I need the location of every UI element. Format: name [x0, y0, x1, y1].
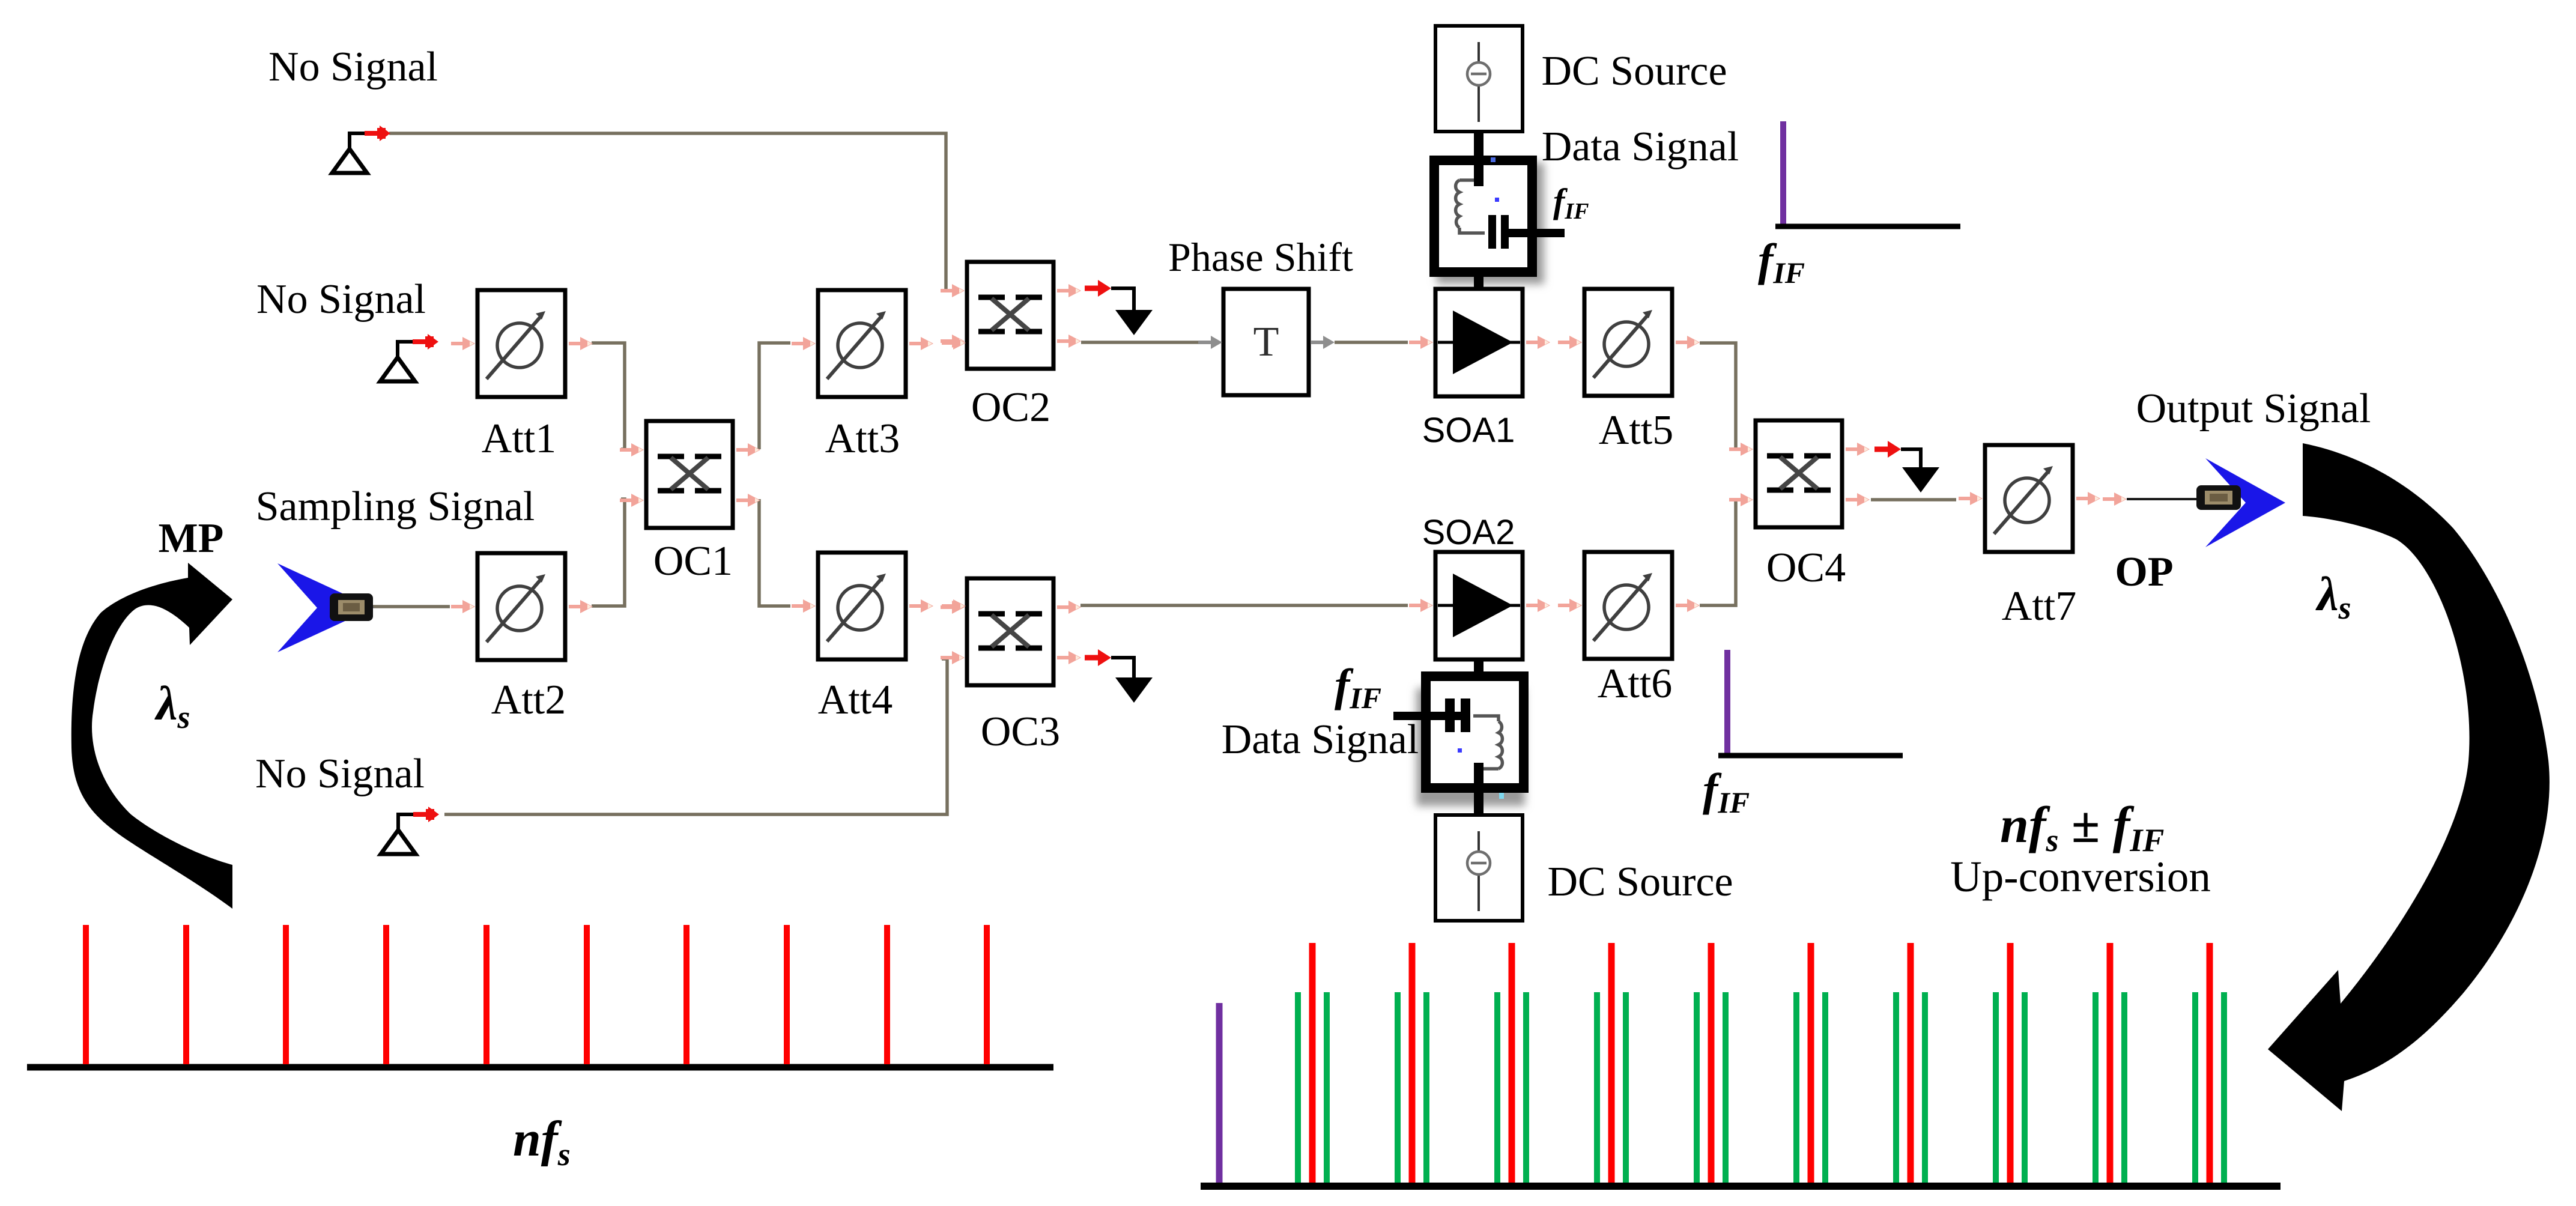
svg-text:DC Source: DC Source [1547, 859, 1733, 905]
svg-text:Output Signal: Output Signal [2136, 386, 2371, 432]
svg-text:SOA1: SOA1 [1422, 411, 1515, 450]
svg-text:OC3: OC3 [981, 709, 1060, 755]
svg-text:No Signal: No Signal [256, 276, 426, 323]
svg-text:OC1: OC1 [653, 538, 733, 584]
svg-text:Att7: Att7 [2002, 583, 2076, 629]
svg-text:MP: MP [159, 515, 224, 562]
svg-text:Phase Shift: Phase Shift [1168, 234, 1353, 280]
svg-text:Data Signal: Data Signal [1542, 124, 1739, 170]
svg-text:No Signal: No Signal [268, 44, 438, 90]
svg-text:OP: OP [2115, 549, 2173, 595]
svg-text:Att6: Att6 [1598, 661, 1672, 707]
svg-text:SOA2: SOA2 [1422, 513, 1515, 552]
svg-text:Up-conversion: Up-conversion [1950, 852, 2211, 901]
svg-text:Att3: Att3 [825, 416, 900, 462]
svg-text:Att2: Att2 [491, 677, 566, 723]
svg-text:OC4: OC4 [1766, 545, 1846, 591]
svg-text:DC Source: DC Source [1541, 48, 1727, 94]
svg-text:Sampling Signal: Sampling Signal [256, 483, 535, 530]
svg-text:Data Signal: Data Signal [1222, 717, 1419, 763]
svg-text:Att4: Att4 [818, 677, 893, 723]
svg-text:Att5: Att5 [1599, 407, 1673, 453]
svg-text:Att1: Att1 [482, 416, 556, 462]
svg-text:No Signal: No Signal [255, 751, 425, 797]
svg-text:OC2: OC2 [971, 384, 1050, 431]
svg-text:T: T [1253, 319, 1279, 365]
